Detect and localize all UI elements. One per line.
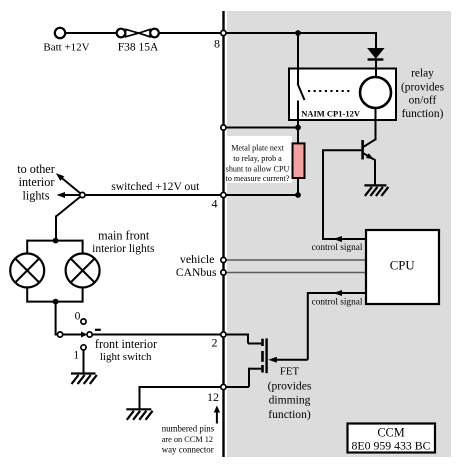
svg-text:CANbus: CANbus [176, 266, 217, 279]
svg-text:interior lights: interior lights [92, 243, 155, 255]
svg-text:FET: FET [280, 366, 300, 378]
svg-text:relay: relay [411, 67, 434, 79]
svg-text:CCM: CCM [377, 425, 404, 439]
svg-text:control signal: control signal [312, 298, 363, 308]
svg-text:shunt to allow CPU: shunt to allow CPU [226, 164, 290, 173]
svg-text:12: 12 [207, 390, 219, 404]
svg-text:switched +12V out: switched +12V out [111, 180, 200, 193]
svg-text:control signal: control signal [312, 243, 363, 253]
svg-text:function): function) [268, 408, 311, 421]
svg-text:2: 2 [212, 336, 218, 350]
svg-text:8: 8 [214, 37, 220, 51]
svg-text:interior: interior [19, 175, 55, 189]
svg-text:to relay, prob a: to relay, prob a [233, 154, 282, 163]
svg-text:NAIM CP1-12V: NAIM CP1-12V [301, 109, 361, 119]
svg-text:lights: lights [22, 188, 49, 202]
svg-text:4: 4 [212, 197, 218, 211]
svg-text:light switch: light switch [100, 351, 152, 363]
svg-text:(provides: (provides [268, 379, 312, 392]
svg-text:CPU: CPU [390, 259, 415, 273]
svg-text:0: 0 [75, 311, 81, 323]
svg-text:front interior: front interior [95, 337, 157, 351]
svg-text:vehicle: vehicle [180, 252, 215, 266]
svg-text:to other: to other [17, 162, 55, 176]
svg-text:on/off: on/off [409, 95, 437, 107]
svg-text:8E0 959 433 BC: 8E0 959 433 BC [352, 438, 431, 452]
svg-text:Metal plate next: Metal plate next [231, 143, 284, 152]
svg-text:numbered pins: numbered pins [162, 424, 215, 434]
svg-text:are on CCM 12: are on CCM 12 [162, 435, 213, 444]
svg-text:1: 1 [73, 350, 79, 362]
svg-text:Batt +12V: Batt +12V [43, 42, 89, 54]
svg-text:dimming: dimming [269, 394, 311, 407]
svg-text:to measure current?: to measure current? [226, 174, 290, 183]
svg-text:main front: main front [98, 229, 150, 243]
svg-text:F38 15A: F38 15A [118, 42, 159, 54]
svg-text:(provides: (provides [401, 82, 445, 94]
svg-text:function): function) [402, 108, 444, 120]
svg-text:way connector: way connector [162, 444, 214, 454]
